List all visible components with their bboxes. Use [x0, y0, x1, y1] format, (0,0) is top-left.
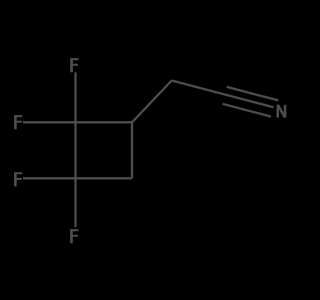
wire: bond F2-C2 horizontal (left upper F to ring top-left carbon) [23, 121, 76, 123]
node F2: upper-left fluorine label [14, 115, 22, 129]
node F1: top fluorine label [70, 58, 78, 72]
wire: bond C2-C1 ring top edge [76, 121, 133, 123]
wire: bond C2-C3 ring left edge [74, 122, 76, 178]
wire: triple bond lower parallel line [223, 104, 272, 117]
wire: triple bond upper parallel line [227, 87, 278, 101]
wire: bond C3-F4 vertical (ring bottom-left carbon to bottom F) [74, 178, 76, 227]
wire: bond F1-C2 vertical (top F to ring top-left carbon) [74, 72, 76, 122]
wire: bond F3-C3 horizontal (left lower F to ring bottom-left carbon) [23, 177, 76, 179]
wire: bond C1-C4 ring right edge [131, 122, 133, 178]
node N: nitrile nitrogen label [277, 105, 280, 118]
wire: bond C5-C6 plus middle line of C#N triple bond [172, 81, 274, 108]
node F3: lower-left fluorine label [14, 172, 22, 186]
wire: bond C3-C4 ring bottom edge [76, 177, 133, 179]
node F4: bottom fluorine label [70, 229, 78, 243]
wire: bond C1-C5 diagonal to CH2 apex [132, 81, 172, 123]
